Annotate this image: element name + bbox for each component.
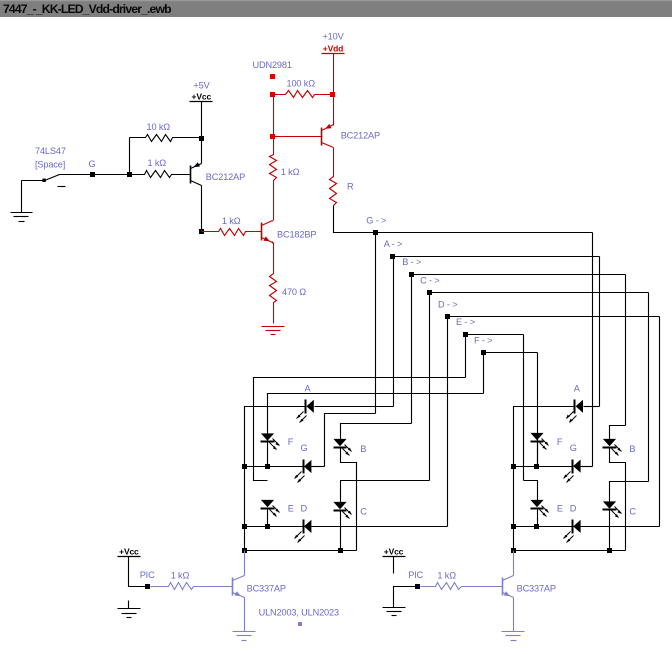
svg-text:D - >: D - > <box>438 299 457 309</box>
wire bus left vertical <box>244 467 246 551</box>
svg-text:B - >: B - > <box>402 257 421 267</box>
wire Q5 collector to display <box>513 551 515 576</box>
wire +Vdd stub red <box>333 54 335 95</box>
svg-text:C: C <box>629 507 636 517</box>
junction collector rail bus left <box>242 548 247 553</box>
wire G bus right <box>376 232 593 234</box>
wire 10k junction row <box>201 139 203 164</box>
wire LED E to bottom rail right <box>537 509 539 527</box>
svg-text:E - >: E - > <box>456 317 475 327</box>
svg-text:A: A <box>305 383 312 393</box>
junction node B <box>409 272 414 277</box>
svg-text:470 Ω: 470 Ω <box>282 287 306 297</box>
wire LED D anode to column right <box>581 526 660 528</box>
wire mid rail right <box>514 466 573 468</box>
wire bus right vertical <box>513 467 515 551</box>
resistor R 1k left PIC blue <box>151 583 233 590</box>
junction node D <box>445 314 450 319</box>
junction red base node <box>270 134 275 139</box>
transistor Q3 BC182BP red <box>261 223 263 241</box>
transistor Q5 BC337AP right <box>502 578 504 596</box>
wire bottom rail left <box>245 526 304 528</box>
wire Q3 emitter down <box>272 242 274 244</box>
wire collector down <box>201 186 203 232</box>
wire LED B cathode jog right <box>610 448 626 551</box>
svg-text:10 kΩ: 10 kΩ <box>147 122 171 132</box>
svg-text:F: F <box>288 437 294 447</box>
junction mid rail F right <box>534 464 539 469</box>
wire C route left <box>341 481 430 503</box>
wire B route right <box>610 426 626 440</box>
wire ground to PIC junction right <box>394 587 418 608</box>
wire Q5 emitter down <box>513 598 515 632</box>
wire LED A cathode to bus right <box>514 407 575 467</box>
wire F right column down <box>537 353 539 467</box>
wire LED G anode right <box>581 466 593 468</box>
LED D right display <box>572 520 574 534</box>
resistor R 470 <box>270 243 277 324</box>
wire E left column down <box>465 335 467 378</box>
svg-text:C - >: C - > <box>420 275 439 285</box>
junction bottom rail bus left <box>242 524 247 529</box>
wire C right column down <box>648 293 650 482</box>
wire LED A anode to column right <box>584 406 600 408</box>
svg-text:R: R <box>347 182 354 192</box>
svg-text:C: C <box>360 507 367 517</box>
svg-text:+Vcc: +Vcc <box>384 547 404 557</box>
LED B left display <box>334 447 347 449</box>
svg-text:E: E <box>288 504 294 514</box>
LED G left display <box>303 460 305 474</box>
wire G right column down <box>592 233 594 467</box>
wire LED A cathode to bus <box>245 407 306 467</box>
red marker square UDN2981 <box>270 74 275 79</box>
resistor R 1k right PIC blue <box>421 583 503 590</box>
wire LED F to rail <box>267 442 269 467</box>
resistor R 1k red horizontal <box>202 229 262 236</box>
wire E bus right <box>466 334 524 336</box>
wire E route left <box>254 378 466 481</box>
resistor R 1k red vertical <box>270 137 277 221</box>
ground GND Q5 emitter <box>502 631 525 633</box>
wire LED G anode <box>312 466 325 468</box>
junction node G <box>373 230 378 235</box>
wire Q3 collector up <box>272 221 274 222</box>
svg-text:D: D <box>570 504 577 514</box>
junction node G <box>90 172 95 177</box>
wire C route right <box>610 482 649 502</box>
svg-text:[Space]: [Space] <box>35 159 65 169</box>
ground GND left PIC floating <box>128 601 130 609</box>
wire up to 10k <box>129 138 131 175</box>
svg-text:E: E <box>557 504 563 514</box>
resistor R 10k <box>130 135 202 142</box>
LED G right display <box>572 460 574 474</box>
wire red left vertical upper <box>273 95 275 137</box>
svg-text:+5V: +5V <box>193 80 210 90</box>
junction node A <box>390 254 395 259</box>
LED E left display <box>261 508 275 510</box>
svg-text:BC182BP: BC182BP <box>277 229 316 239</box>
transistor Q2 BC212AP red <box>321 128 323 146</box>
wire B route left <box>341 424 412 440</box>
wire C left column down <box>429 293 431 481</box>
wire LED E to bottom rail <box>267 509 269 527</box>
svg-text:1 kΩ: 1 kΩ <box>171 571 190 581</box>
ground GND Q4 emitter <box>233 631 256 633</box>
junction bottom rail bus right <box>511 524 516 529</box>
wire Q4 collector to display <box>244 551 246 576</box>
svg-text:+Vcc: +Vcc <box>119 547 139 557</box>
svg-text:ULN2003, ULN2023: ULN2003, ULN2023 <box>259 607 339 617</box>
LED D left display <box>303 520 305 534</box>
LED F left display <box>261 441 275 443</box>
wire G route left <box>325 414 376 467</box>
wire red base to Q2 <box>274 136 323 138</box>
wire D left column down <box>447 317 449 527</box>
wire LED C cathode right <box>609 510 611 551</box>
junction collector rail C right <box>607 548 612 553</box>
svg-text:+Vcc: +Vcc <box>192 92 212 102</box>
LED C left display <box>334 510 347 512</box>
svg-text:74LS47: 74LS47 <box>35 146 66 156</box>
svg-text:A: A <box>574 383 581 393</box>
wire A right column down <box>599 257 601 407</box>
wire E route right <box>524 481 538 501</box>
junction collector node <box>199 229 204 234</box>
LED A right display <box>574 400 576 414</box>
wire collector rail right <box>514 550 626 552</box>
resistor R 100k red <box>274 91 334 98</box>
wire bottom rail right <box>514 526 573 528</box>
junction bottom rail E left <box>265 524 270 529</box>
wire LED A anode to column <box>315 406 394 408</box>
LED B right display <box>603 447 617 449</box>
svg-text:UDN2981: UDN2981 <box>253 60 292 70</box>
svg-text:B: B <box>360 444 366 454</box>
junction base node <box>127 172 132 177</box>
svg-text:PIC: PIC <box>140 570 155 580</box>
wire F bus right <box>484 352 538 354</box>
wire D right column down <box>659 317 661 527</box>
wire B left column down <box>411 275 413 424</box>
wire Q2 emitter up <box>333 95 335 126</box>
junction PIC left <box>145 584 150 589</box>
svg-text:G: G <box>301 443 308 453</box>
svg-text:1 kΩ: 1 kΩ <box>148 158 167 168</box>
svg-text:G - >: G - > <box>366 215 386 225</box>
blue marker square <box>298 622 302 626</box>
switch S1 [Space] <box>42 179 45 182</box>
wire LED D anode to column <box>312 526 448 528</box>
wire +Vcc stub <box>201 102 203 139</box>
svg-text:BC212AP: BC212AP <box>341 131 380 141</box>
wire Q4 emitter down <box>244 598 246 632</box>
wire LED B cathode jog <box>341 448 357 551</box>
wire F route left <box>268 394 484 434</box>
wire G left column down <box>375 233 377 414</box>
wire switch to node G <box>59 174 130 176</box>
wire R bottom to node G black <box>334 206 376 233</box>
wire A bus right <box>394 256 600 258</box>
svg-text:G: G <box>89 159 96 169</box>
wire D bus right <box>448 316 660 318</box>
junction red right top <box>330 92 335 97</box>
svg-text:G: G <box>570 443 577 453</box>
svg-text:1 kΩ: 1 kΩ <box>222 216 241 226</box>
transistor Q1 BC212AP black <box>190 166 192 184</box>
junction red left top <box>270 92 275 97</box>
junction PIC right <box>415 584 420 589</box>
wire +Vcc stub right <box>393 557 395 574</box>
svg-text:B: B <box>629 444 635 454</box>
junction mid rail F left <box>265 464 270 469</box>
junction mid rail bus right <box>511 464 516 469</box>
LED A left display <box>305 400 307 414</box>
wire B right column down <box>625 275 627 426</box>
wire E right column down <box>523 335 525 481</box>
wire LED F to rail right <box>537 442 539 467</box>
wire F left column down <box>483 353 485 394</box>
wire +Vcc to PIC junction <box>129 557 148 587</box>
svg-text:7447_-_KK-LED_Vdd-driver_.ewb: 7447_-_KK-LED_Vdd-driver_.ewb <box>3 2 171 16</box>
title bar <box>0 0 672 17</box>
junction node E <box>463 332 468 337</box>
wire collector rail left <box>245 550 357 552</box>
junction collector rail bus right <box>511 548 516 553</box>
svg-text:D: D <box>301 504 308 514</box>
resistor R 1k base <box>130 171 191 178</box>
svg-text:+Vdd: +Vdd <box>323 44 343 54</box>
svg-text:1 kΩ: 1 kΩ <box>281 167 300 177</box>
svg-text:BC212AP: BC212AP <box>206 172 245 182</box>
wire A left column down <box>393 257 395 407</box>
ground GND right PIC <box>383 607 406 609</box>
resistor R red <box>330 148 337 206</box>
ground GND red <box>262 326 285 328</box>
svg-text:A - >: A - > <box>384 239 402 249</box>
svg-text:100 kΩ: 100 kΩ <box>287 78 316 88</box>
junction bottom rail E right <box>534 524 539 529</box>
wire to switch <box>22 180 44 182</box>
svg-text:BC337AP: BC337AP <box>517 584 556 594</box>
svg-text:F - >: F - > <box>474 335 492 345</box>
wire B bus right <box>412 274 626 276</box>
junction node F <box>481 350 486 355</box>
transistor Q4 BC337AP left <box>232 578 234 596</box>
LED C right display <box>603 509 617 511</box>
svg-text:+10V: +10V <box>322 32 344 42</box>
junction Vcc node <box>199 136 204 141</box>
LED F right display <box>531 441 544 443</box>
wire LED C cathode <box>340 511 342 551</box>
junction collector rail C left <box>338 548 343 553</box>
wire mid rail left <box>245 466 304 468</box>
junction node C <box>427 290 432 295</box>
svg-text:F: F <box>557 437 563 447</box>
svg-text:BC337AP: BC337AP <box>247 584 286 594</box>
wire C bus right <box>430 292 649 294</box>
junction mid rail bus left <box>242 464 247 469</box>
ground GND1 top-left <box>21 181 23 213</box>
svg-text:1 kΩ: 1 kΩ <box>437 571 456 581</box>
svg-text:PIC: PIC <box>408 570 423 580</box>
LED E right display <box>531 508 544 510</box>
